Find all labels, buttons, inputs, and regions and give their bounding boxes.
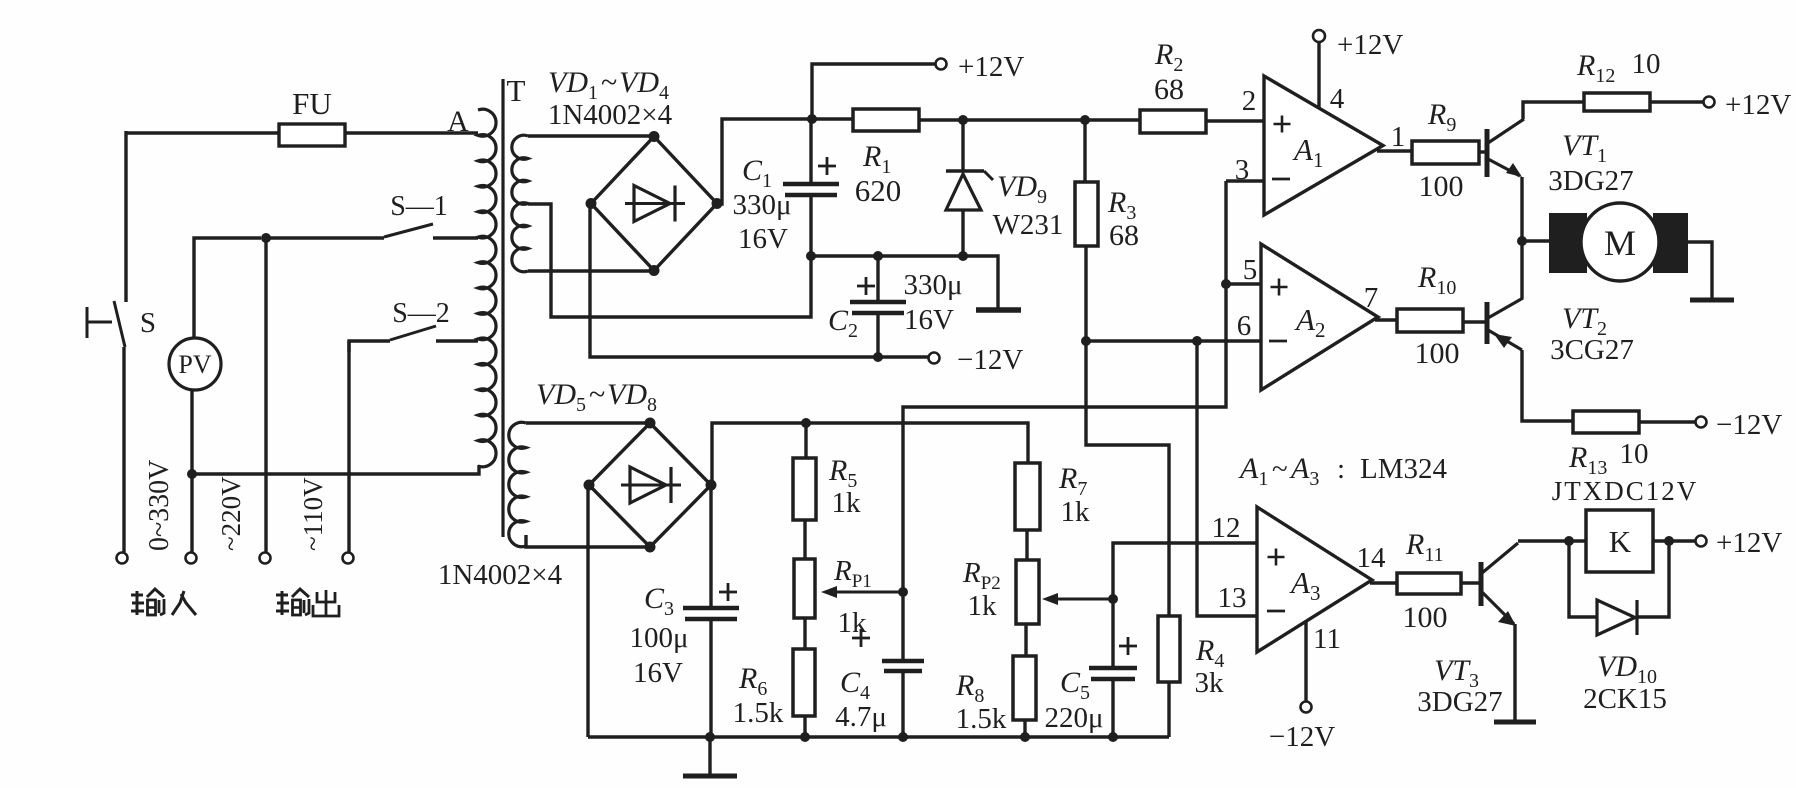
label C3 plus [719,583,737,601]
label S-1 [390,191,448,222]
label pin 5 [1243,254,1258,286]
svg-text:LM324: LM324 [1360,453,1448,485]
label W231 (VD9) [993,209,1064,241]
label C5 plus [1119,637,1137,655]
wire R3 bottom to A2 pin6 [1086,339,1260,342]
capacitor C2 [850,256,906,357]
label +12V (A1) [1337,29,1403,61]
label R7 [1058,462,1087,500]
label ~220V [216,476,246,551]
svg-text:W231: W231 [993,209,1064,241]
svg-text:~: ~ [1272,453,1288,485]
label -12V (right) [1716,409,1782,441]
node junction pin6/pin13 [1192,336,1202,346]
svg-text:PV: PV [178,350,211,379]
wire R10 to VT2 base [1463,320,1487,323]
svg-text:−12V: −12V [1716,409,1782,441]
label output (Chinese) [276,589,339,616]
wire switch S upper lead [124,131,127,302]
svg-text:3DG27: 3DG27 [1548,165,1633,197]
zener diode VD9 [946,120,993,256]
transformer T core [501,79,504,537]
label C2 plus [857,277,875,295]
node junction R8 bottom [1020,732,1030,742]
svg-text:1N4002×4: 1N4002×4 [438,559,563,591]
label RP2 [962,557,1001,594]
svg-text:~220V: ~220V [216,476,246,551]
svg-text:16V: 16V [633,657,683,689]
svg-text:~: ~ [589,378,605,411]
svg-text:100μ: 100μ [629,622,688,654]
terminal -12V (A3 pin11) [1301,702,1312,713]
wire bridge1 positive to +12V rail [717,119,853,204]
resistor R9 [1412,141,1479,164]
label 3DG27 (VT1) [1548,165,1633,197]
label +12V (relay) [1716,527,1782,559]
resistor R2 [1140,110,1206,133]
svg-text:JTXDC12V: JTXDC12V [1552,476,1699,506]
svg-text:4.7μ: 4.7μ [835,701,887,733]
label S-2 [392,298,450,329]
svg-text:S: S [140,307,156,339]
svg-text:7: 7 [1364,282,1379,314]
svg-text:100: 100 [1419,170,1464,203]
label -12V (supply) [957,344,1023,376]
wire 220V tap vertical [264,238,267,552]
transistor VT2 [1487,298,1523,350]
node junction C3 bottom [705,732,715,742]
switch S [87,301,125,347]
svg-text:K: K [1609,524,1632,559]
wire secondary1 bottom to bridge VD1-VD4 [528,269,652,272]
label R12 10 [1576,48,1661,87]
wire A2 output [1375,318,1397,321]
node junction RP2 wiper [1108,594,1118,604]
label C5 [1060,666,1090,704]
switch S-1 [266,224,478,238]
label pin 1 [1391,121,1406,153]
capacitor C1 [783,119,839,256]
wire R3-R4 link [1086,341,1169,616]
wire A1 pin4 +12V stub [1317,42,1320,108]
label 16V (C3) [633,657,683,689]
label R8 [955,669,984,707]
wire VT2 emitter to R13 [1522,350,1573,421]
svg-text:10: 10 [1620,438,1649,470]
svg-text:4: 4 [1330,83,1345,115]
resistor R3 [1075,120,1098,341]
svg-text:13: 13 [1218,582,1247,614]
label R9 [1427,98,1456,136]
wire main +12V rail segment [919,118,1140,121]
svg-text:5: 5 [1243,254,1258,286]
svg-text:~110V: ~110V [298,477,328,551]
label VD5~VD8 [536,378,657,416]
svg-text:2: 2 [1242,85,1257,117]
resistor R6 [793,649,815,737]
svg-text:+12V: +12V [1716,527,1782,559]
wire pin13 feed [1197,341,1257,616]
wire R2 to A1 pin2 [1206,119,1264,122]
label ~110V [298,477,328,551]
node junction input 2 [187,469,197,479]
switch S-2 [349,326,478,352]
node junction inverting bus [1081,336,1091,346]
label R13 10 [1568,438,1649,479]
bridge rectifier VD5-VD8 [584,418,717,553]
label R5 [828,454,857,492]
op-amp A2 [1261,244,1378,390]
svg-text:0~330V: 0~330V [144,460,175,551]
motor M [1549,203,1688,281]
wire to motor [1522,239,1552,242]
wire secondary1 center tap [528,204,811,317]
terminal input 1 [117,553,128,564]
wire A1 output [1377,149,1412,152]
label VD9 [997,170,1047,208]
resistor R5 [793,423,816,520]
svg-text:3DG27: 3DG27 [1417,686,1502,718]
label T [507,73,526,108]
op-amp A3 [1257,507,1372,652]
svg-text:3k: 3k [1195,667,1225,699]
wire A1 pin3 lead [1226,179,1264,182]
label VD10 [1597,650,1657,688]
label A1~A3 LM324 [1238,452,1448,490]
node junction pin5 [1221,279,1231,289]
svg-text:1k: 1k [968,590,998,622]
label C4 plus [852,629,870,647]
wire R9 to VT1 base [1479,150,1487,153]
bridge rectifier VD1-VD4 [586,131,723,276]
wire pin5 lead [1226,282,1261,285]
svg-text:2CK15: 2CK15 [1583,683,1667,715]
label 100 (R11) [1403,601,1448,634]
label C4 [840,666,870,704]
svg-text:−12V: −12V [1269,721,1335,753]
svg-text:100: 100 [1415,337,1460,370]
wire pin3 to pin5 bus [1224,181,1227,284]
terminal -12V (supply) [929,353,940,364]
label 4.7u (C4) [835,701,887,733]
wire VT3 emitter to ground [1513,624,1516,720]
label 2CK15 (VD10) [1583,683,1667,715]
arrow RP2 wiper [1042,593,1113,605]
svg-text:14: 14 [1357,542,1387,574]
node junction raw +12V [807,114,817,124]
node junction motor drive [1517,236,1527,246]
transformer secondary winding 1 [512,135,528,272]
node junction C4 bottom [898,732,908,742]
label VT1 [1562,129,1607,167]
label pin 4 [1330,83,1345,115]
svg-text:16V: 16V [738,223,788,255]
label pin 2 [1242,85,1257,117]
svg-text:1: 1 [1391,121,1406,153]
label -12V (A3) [1269,721,1335,753]
node junction R6 bottom [800,732,810,742]
label pin 3 [1235,154,1250,186]
resistor R13 [1573,411,1639,433]
label R2 [1154,38,1183,76]
svg-text:~: ~ [601,66,617,99]
svg-text:1k: 1k [1061,496,1091,528]
node junction C2 bottom [873,352,883,362]
node junction S-1 feed [261,233,271,243]
resistor R7 [1015,463,1040,530]
meter PV [169,338,221,390]
label R1 [862,140,891,178]
terminal +12V (relay) [1696,536,1707,547]
label JTXDC12V [1552,476,1699,506]
resistor R8 [1013,656,1036,737]
capacitor C3 [683,488,739,737]
label A1 [1292,132,1323,172]
label 3CG27 (VT2) [1550,334,1634,366]
svg-text:11: 11 [1313,623,1341,655]
svg-text:68: 68 [1109,219,1139,252]
label pin 12 [1212,512,1241,544]
wire bridge2 positive riser [712,423,1028,488]
wire 110V tap vertical [347,341,350,552]
svg-text:16V: 16V [904,304,954,336]
svg-text:A: A [447,105,469,138]
label VT2 [1562,302,1607,340]
op-amp A1 [1264,76,1383,215]
wire PV upper lead [194,238,261,339]
label pin 14 [1357,542,1387,574]
wire R11 to VT3 base [1461,581,1481,584]
wire motor to ground [1688,242,1712,298]
label 620 (R1) [855,173,902,208]
potentiometer RP1 [794,520,815,649]
diode VD10 [1569,541,1669,635]
wire PV lower lead [190,390,193,552]
wire +12V terminal stub [812,64,935,119]
wire A3 output [1370,581,1397,584]
resistor R4 [1158,616,1180,737]
label pin 11 [1313,623,1341,655]
label 100u (C3) [629,622,688,654]
terminal +12V (supply) [936,59,947,70]
node junction C2 top [873,251,883,261]
wire VT1 collector to R12 [1523,102,1584,119]
wire secondary2 bottom to bridge VD5-VD8 [526,535,647,547]
label 100 (R10) [1415,337,1460,370]
label VT3 [1434,654,1479,692]
svg-text:1k: 1k [832,487,862,519]
label C3 [644,582,674,620]
svg-text:+12V: +12V [1337,29,1403,61]
svg-text:T: T [507,73,526,108]
potentiometer RP2 [1016,530,1039,656]
label R4 [1195,634,1224,672]
ground (motor) [1690,298,1734,303]
wire R12 to +12V [1650,100,1704,103]
label R11 [1405,528,1444,566]
label S [140,307,156,339]
relay K [1586,510,1653,572]
svg-text:330μ: 330μ [903,269,962,301]
svg-text:+12V: +12V [958,51,1024,83]
label R3 [1107,186,1136,224]
label FU [292,86,332,121]
svg-text:100: 100 [1403,601,1448,634]
node junction C5 bottom [1108,732,1118,742]
label input (Chinese) [131,589,196,615]
label 1.5k (R8) [956,703,1007,735]
svg-text:S—1: S—1 [390,191,448,222]
wire VT2 collector to motor node [1520,241,1523,299]
svg-text:330μ: 330μ [732,189,791,221]
wire bridge1 negative to -12V rail [590,204,929,357]
resistor R11 [1397,573,1461,594]
svg-text:3CG27: 3CG27 [1550,334,1634,366]
label 100 (R9) [1419,170,1464,203]
resistor R12 [1584,93,1650,111]
label 1k (R5) [832,487,862,519]
label 1k (R7) [1061,496,1091,528]
ground (common rail) [683,737,737,776]
fuse FU [279,124,345,146]
label 330u (C2) [903,269,962,301]
terminal +12V (A1 pin4) [1313,30,1325,42]
terminal input 2 [186,553,197,564]
label 3k (R4) [1195,667,1225,699]
node junction R5 top [801,418,811,428]
label VD1~VD4 [548,66,669,104]
label R6 [738,662,767,700]
resistor R1 [853,109,919,131]
label 16V (C1) [738,223,788,255]
arrow RP1 wiper [821,586,903,598]
label A3 [1289,565,1320,605]
svg-text:1k: 1k [838,607,868,639]
transistor VT3 [1481,543,1518,626]
label pin 6 [1237,310,1252,342]
svg-text:68: 68 [1154,73,1184,106]
label 1k (RP1) [838,607,868,639]
label pin 7 [1364,282,1379,314]
wire relay to +12V [1653,539,1696,542]
label 16V (C2) [904,304,954,336]
svg-text:6: 6 [1237,310,1252,342]
svg-text:1N4002×4: 1N4002×4 [548,99,673,131]
wire primary bottom return [192,465,479,474]
label 1.5k (R6) [733,697,784,729]
label +12V (right) [1725,89,1791,121]
label 1N4002 x4 (bottom) [438,559,563,591]
terminal output 110V [343,553,354,564]
terminal +12V (R12) [1704,97,1715,108]
node junction VD9 top [958,115,968,125]
node junction C1 negative [806,251,816,261]
wire secondary1 top to bridge VD1-VD4 [528,134,652,137]
wire A3 pin11 -12V stub [1304,621,1307,701]
svg-text:FU: FU [292,86,332,121]
wire feedback to RP1 wiper [903,284,1226,592]
label C2 [828,304,858,342]
ground (VT3) [1494,720,1536,725]
node junction relay left [1564,536,1574,546]
svg-text:620: 620 [855,173,902,208]
label 3DG27 (VT3) [1417,686,1502,718]
label 68 (R2) [1154,73,1184,106]
wire top rail from switch S to fuse and transformer primary [126,131,478,134]
label A2 [1294,302,1325,342]
svg-text:1.5k: 1.5k [956,703,1007,735]
wire VT3 collector to relay [1518,539,1586,542]
resistor R10 [1397,309,1463,332]
capacitor C4 [882,592,924,737]
label +12V (supply) [958,51,1024,83]
wire common bottom rail [588,735,1169,738]
transistor VT1 [1487,119,1524,177]
svg-text:3: 3 [1235,154,1250,186]
label A [447,105,469,138]
ground (0V rail) [976,307,1021,313]
label C1 plus [818,157,836,175]
svg-text:10: 10 [1632,48,1661,80]
wire VT1 emitter to motor [1520,177,1523,241]
capacitor C5 [1089,599,1137,737]
svg-text:+12V: +12V [1725,89,1791,121]
transformer secondary winding 2 [509,422,526,546]
wire R13 to -12V [1639,420,1696,423]
label R10 [1417,261,1456,299]
svg-text:M: M [1604,223,1636,263]
node junction RP1 wiper [898,587,908,597]
label 1k (RP2) [968,590,998,622]
wire secondary2 top to bridge VD5-VD8 [526,421,649,424]
svg-text:−12V: −12V [957,344,1023,376]
label 330u (C1) [732,189,791,221]
svg-text::: : [1337,453,1345,485]
node junction R3 top [1080,115,1090,125]
wire switch S lower lead [122,347,125,552]
svg-text:220μ: 220μ [1044,702,1103,734]
label C1 [742,154,772,192]
transformer primary winding [478,109,496,467]
wire RP2 wiper to A3 pin12 [1113,543,1257,599]
terminal -12V (R13) [1696,417,1707,428]
label pin 13 [1218,582,1247,614]
label 1N4002 x4 (top) [548,99,673,131]
svg-text:S—2: S—2 [392,298,450,329]
node junction VD9 bottom [958,251,968,261]
svg-text:1.5k: 1.5k [733,697,784,729]
label 0~330V [144,460,175,551]
label RP1 [833,555,872,592]
wire 0V rail [811,256,998,308]
wire bridge2 negative to common rail [586,488,589,737]
terminal output 220V [260,553,271,564]
label 220u (C5) [1044,702,1103,734]
node junction relay right [1664,536,1674,546]
svg-text:12: 12 [1212,512,1241,544]
label 68 (R3) [1109,219,1139,252]
